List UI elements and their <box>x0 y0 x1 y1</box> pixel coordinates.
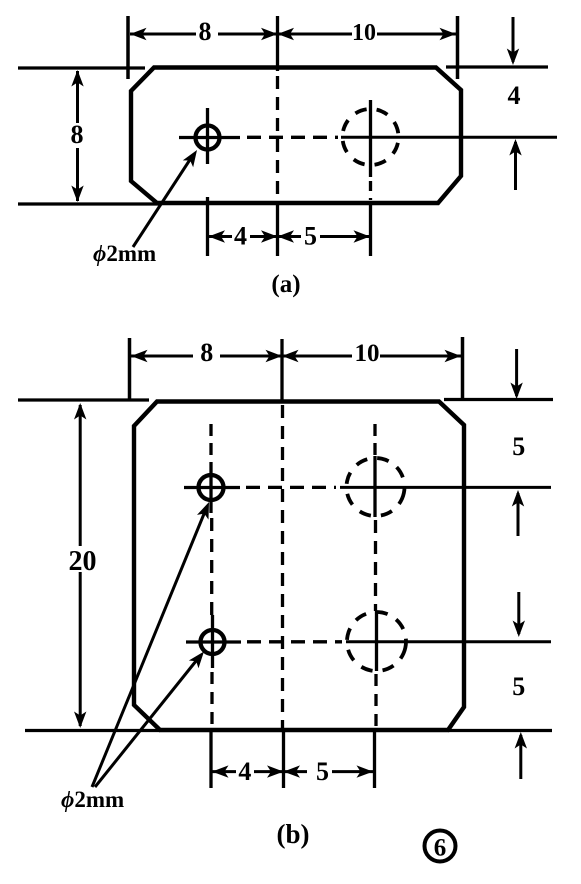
svg-text:4: 4 <box>238 757 251 786</box>
svg-text:(a): (a) <box>271 271 300 298</box>
svg-text:5: 5 <box>304 222 317 251</box>
svg-text:6: 6 <box>434 835 447 862</box>
svg-text:4: 4 <box>508 81 521 110</box>
svg-text:4: 4 <box>234 222 247 251</box>
svg-text:10: 10 <box>355 340 380 367</box>
svg-text:5: 5 <box>316 757 329 786</box>
svg-text:5: 5 <box>512 672 525 701</box>
svg-text:20: 20 <box>69 546 97 577</box>
svg-text:8: 8 <box>200 338 213 367</box>
svg-text:8: 8 <box>199 17 212 46</box>
svg-text:10: 10 <box>352 20 376 46</box>
svg-text:(b): (b) <box>277 819 310 849</box>
svg-text:ϕ2mm: ϕ2mm <box>61 787 124 812</box>
svg-text:8: 8 <box>71 120 84 149</box>
svg-text:ϕ2mm: ϕ2mm <box>93 241 156 266</box>
svg-text:5: 5 <box>512 432 525 461</box>
